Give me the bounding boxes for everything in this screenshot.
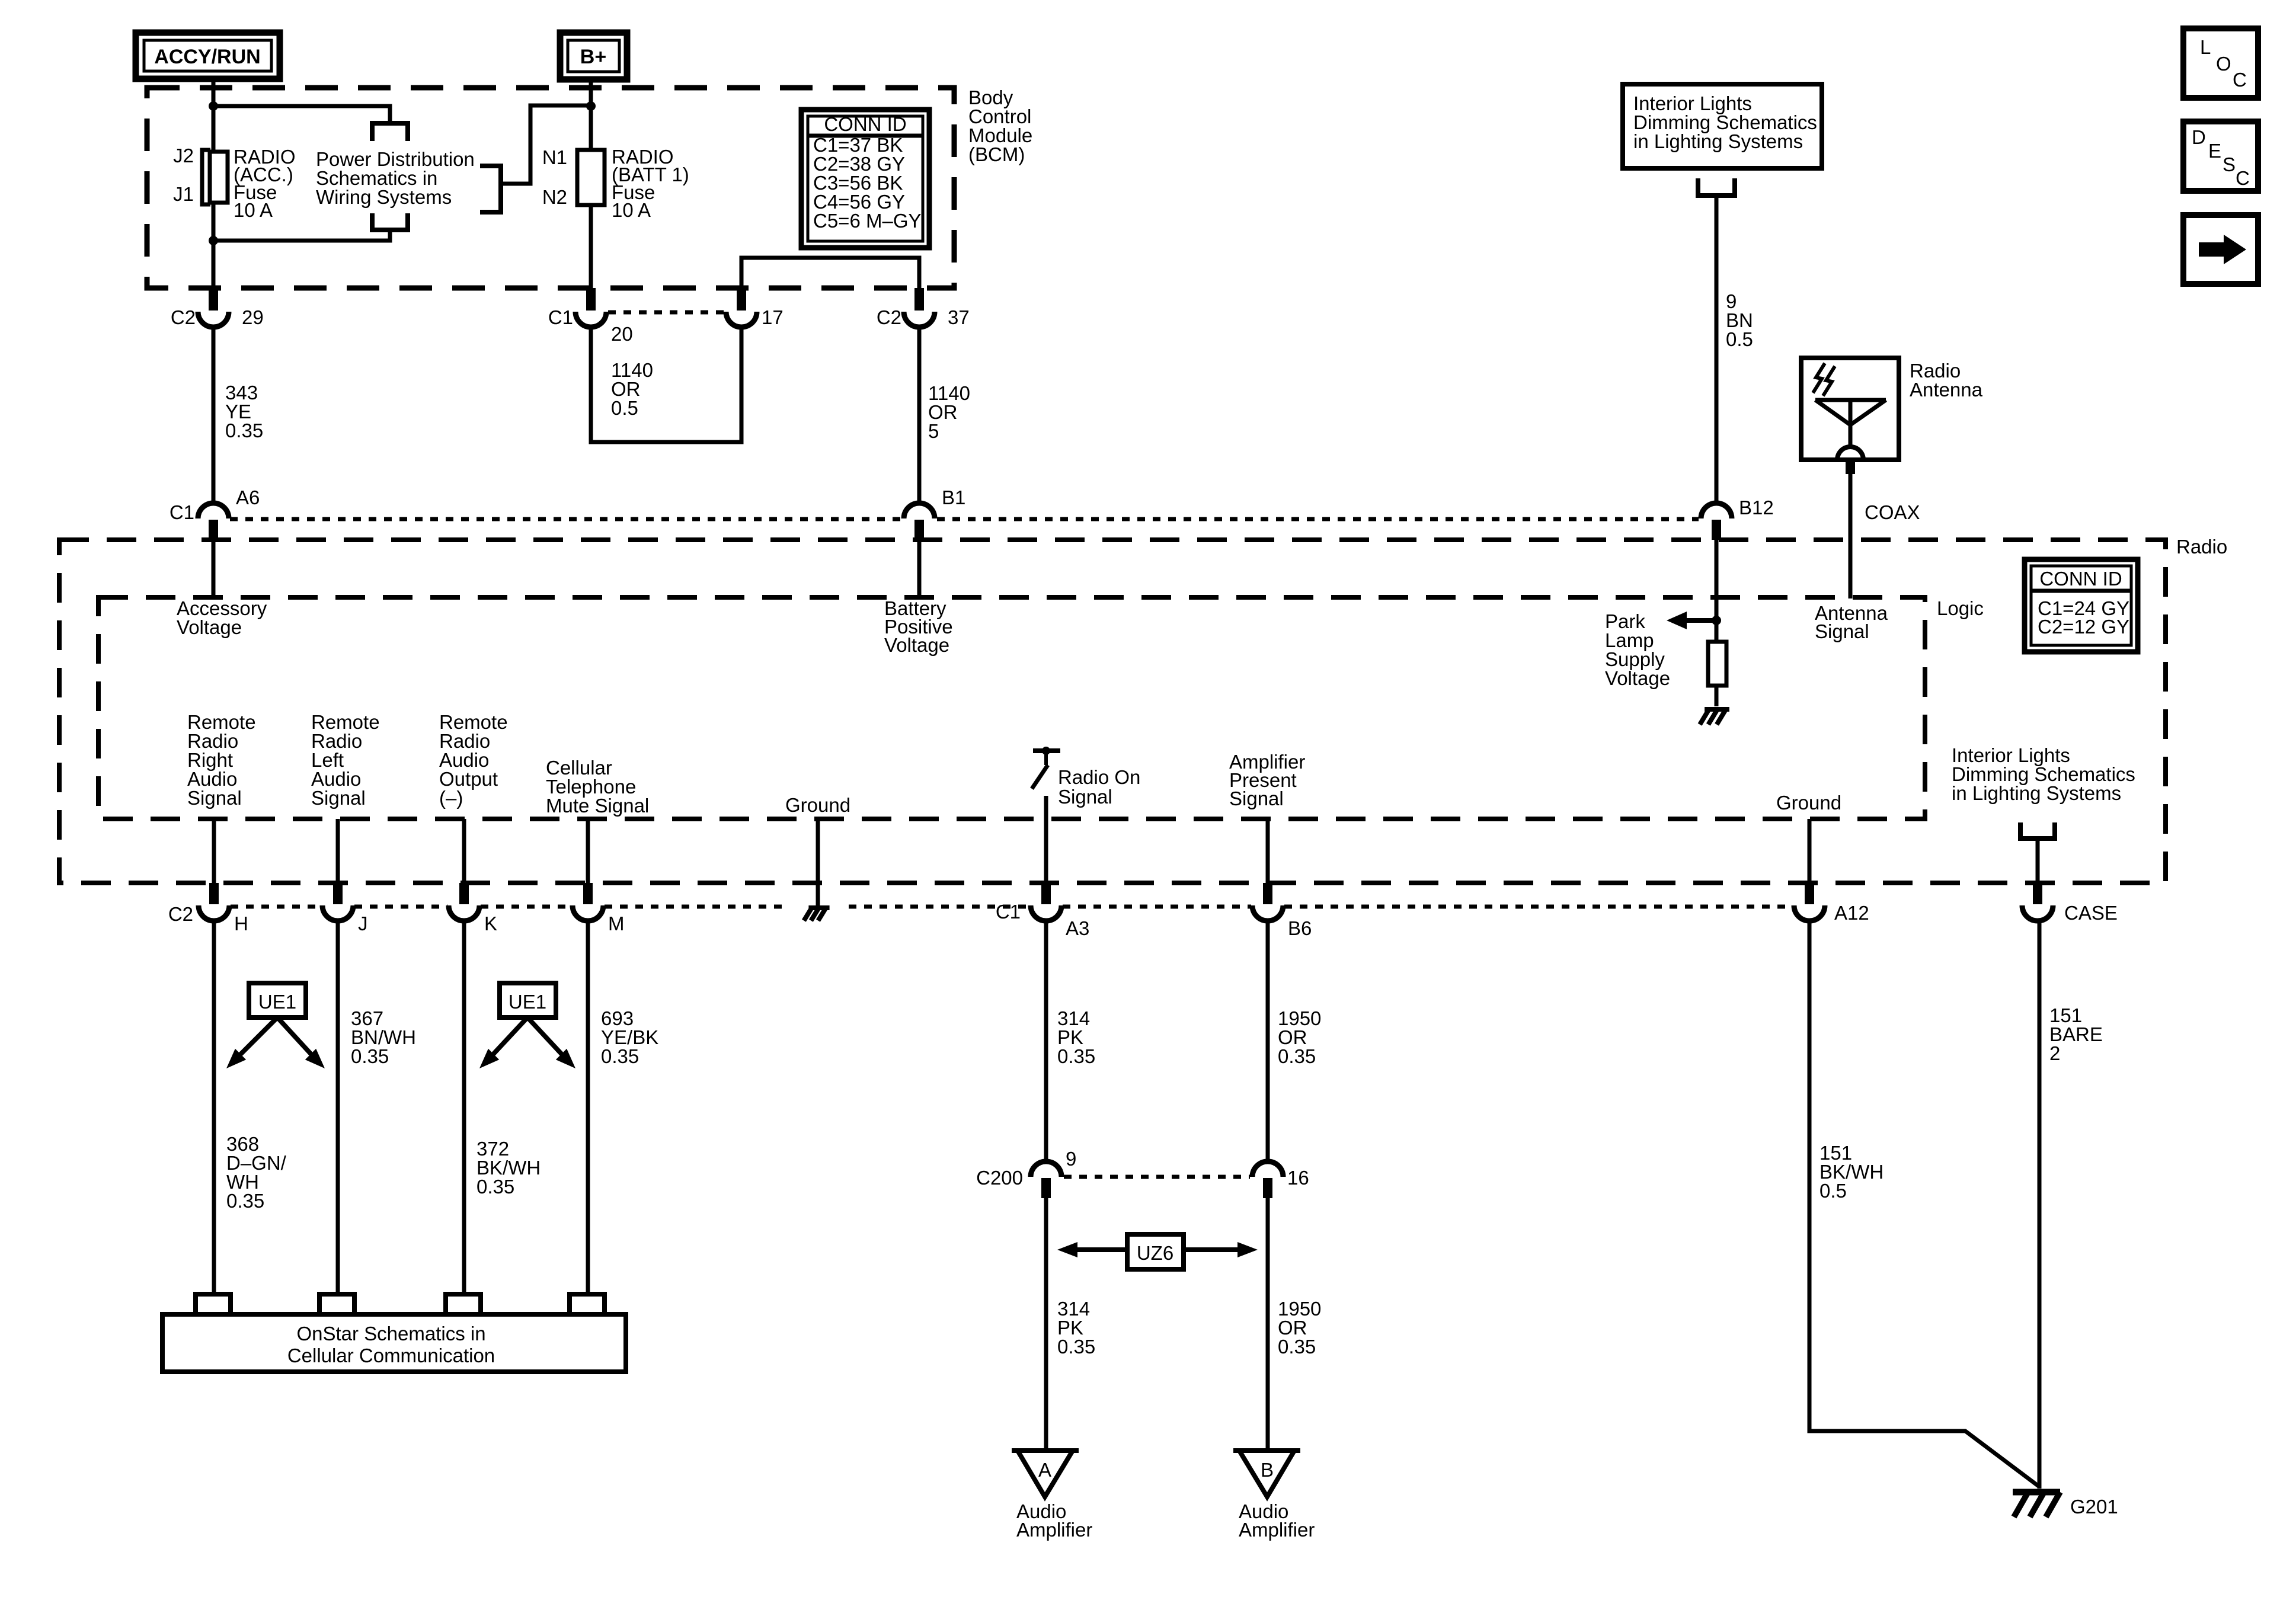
svg-text:UE1: UE1 bbox=[509, 991, 546, 1013]
label C1 (radio top) bbox=[170, 501, 194, 523]
bracket under in Lighting Systems bbox=[2020, 822, 2055, 838]
svg-text:0.5: 0.5 bbox=[1726, 328, 1753, 350]
svg-text:Amplifier: Amplifier bbox=[1016, 1519, 1092, 1541]
svg-text:16: 16 bbox=[1287, 1167, 1309, 1189]
ground wire (radio internal) bbox=[816, 819, 820, 908]
wire remote right audio (logic to connector) bbox=[199, 819, 229, 921]
svg-text:OnStar Schematics in: OnStar Schematics in bbox=[296, 1323, 485, 1345]
svg-text:Signal: Signal bbox=[1815, 620, 1869, 642]
svg-text:Wiring Systems: Wiring Systems bbox=[316, 186, 452, 208]
terminal bracket (OnStar) bbox=[319, 1294, 354, 1314]
pin label N1 bbox=[542, 146, 567, 168]
connector dashed line C1-radio (A6..B12) bbox=[230, 517, 1699, 521]
junction node B+ bbox=[586, 101, 596, 111]
svg-text:5: 5 bbox=[928, 420, 939, 442]
svg-text:Voltage: Voltage bbox=[177, 616, 242, 638]
fuse RADIO (ACC.) 10A bbox=[202, 150, 228, 204]
label Interior Lights Dimming (in radio) bbox=[1952, 744, 2135, 804]
wire to OnStar bbox=[212, 921, 216, 1294]
svg-text:Amplifier: Amplifier bbox=[1239, 1519, 1315, 1541]
svg-text:0.35: 0.35 bbox=[351, 1045, 389, 1067]
svg-text:S: S bbox=[2223, 153, 2236, 175]
svg-text:0.35: 0.35 bbox=[1057, 1045, 1095, 1067]
junction node ACC lower bbox=[209, 236, 218, 245]
wire 9 BN 0.5 (interior lights to B12) bbox=[1715, 196, 1719, 504]
ground G201 bbox=[2013, 1492, 2060, 1517]
label Body Control Module (BCM) bbox=[968, 87, 1032, 165]
svg-text:D: D bbox=[2192, 126, 2206, 148]
label 151 BARE 2 bbox=[2049, 1004, 2103, 1064]
junction node park lamp bbox=[1712, 616, 1721, 625]
label Radio bbox=[2176, 536, 2227, 558]
svg-text:J2: J2 bbox=[173, 145, 194, 167]
svg-text:CONN ID: CONN ID bbox=[824, 113, 906, 135]
svg-text:C2: C2 bbox=[168, 903, 193, 925]
logic dashed outline bbox=[98, 597, 1925, 819]
label C2 (radio bottom) bbox=[168, 903, 193, 925]
wire 1140 OR 0.5 (pin 20 to pin 17) bbox=[591, 327, 741, 442]
label 9 BN 0.5 bbox=[1726, 290, 1753, 350]
label 1950 OR 0.35 (lower) bbox=[1278, 1298, 1321, 1358]
label Accessory Voltage bbox=[177, 597, 267, 638]
label Remote Radio Audio Output (-) bbox=[439, 711, 508, 809]
svg-text:Radio: Radio bbox=[2176, 536, 2227, 558]
svg-text:L: L bbox=[2200, 36, 2211, 58]
wire 151 BARE (CASE to G201) bbox=[2038, 921, 2042, 1489]
pin label A6 bbox=[236, 486, 260, 508]
label C1 (BCM) bbox=[548, 306, 573, 328]
wire 343 YE (pin 29 to radio A6) bbox=[212, 327, 216, 504]
svg-text:Logic: Logic bbox=[1937, 597, 1984, 619]
label C1 (radio bottom) bbox=[996, 901, 1021, 923]
pin label B1 bbox=[942, 486, 965, 508]
wire 1140 OR 5 (pin 37 to radio B1) bbox=[917, 327, 922, 504]
terminal bracket (OnStar) bbox=[446, 1294, 481, 1314]
label Amplifier Present Signal bbox=[1229, 751, 1305, 809]
svg-text:G201: G201 bbox=[2070, 1496, 2118, 1518]
svg-text:17: 17 bbox=[762, 306, 784, 328]
svg-text:C: C bbox=[2236, 167, 2250, 189]
svg-text:0.35: 0.35 bbox=[1278, 1045, 1316, 1067]
svg-text:B6: B6 bbox=[1288, 917, 1312, 939]
svg-text:B: B bbox=[1261, 1459, 1274, 1481]
terminal bracket (OnStar) bbox=[196, 1294, 231, 1314]
svg-text:9: 9 bbox=[1066, 1148, 1076, 1170]
UE1 arrow left bbox=[226, 1017, 277, 1068]
wire remote audio output (logic to connector) bbox=[449, 819, 479, 921]
icon box arrow bbox=[2183, 215, 2258, 284]
radio antenna box bbox=[1801, 358, 1899, 460]
power feed box B+ bbox=[560, 33, 627, 79]
wire battery positive voltage into logic bbox=[917, 540, 922, 597]
label C2 (BCM left) bbox=[171, 306, 196, 328]
label 1140 OR 0.5 bbox=[611, 359, 653, 419]
BCM dashed outline bbox=[147, 88, 954, 288]
label Battery Positive Voltage bbox=[884, 597, 953, 656]
label 343 YE 0.35 bbox=[225, 382, 263, 441]
wire 314 PK upper bbox=[1044, 921, 1048, 1164]
label C2 (BCM right) bbox=[877, 306, 901, 328]
svg-text:C200: C200 bbox=[976, 1167, 1023, 1189]
svg-text:C2: C2 bbox=[171, 306, 196, 328]
wire accessory voltage into logic bbox=[212, 540, 216, 597]
svg-text:Mute Signal: Mute Signal bbox=[546, 795, 649, 817]
svg-text:A12: A12 bbox=[1834, 902, 1869, 924]
svg-text:0.35: 0.35 bbox=[226, 1190, 264, 1212]
svg-text:20: 20 bbox=[611, 323, 633, 345]
svg-text:B+: B+ bbox=[580, 46, 606, 68]
svg-text:Signal: Signal bbox=[1058, 786, 1112, 808]
svg-text:ACCY/RUN: ACCY/RUN bbox=[154, 46, 260, 68]
svg-text:CONN ID: CONN ID bbox=[2039, 568, 2122, 590]
wire junction to reference bracket N-side bbox=[501, 105, 591, 184]
label 1140 OR 5 bbox=[928, 382, 970, 442]
ground (radio internal chassis) bbox=[804, 908, 829, 921]
label 151 BK/WH 0.5 bbox=[1819, 1142, 1884, 1202]
reference bracket bottom (Power Distribution) bbox=[372, 213, 408, 230]
wire remote left audio (logic to connector) bbox=[322, 819, 353, 921]
svg-text:O: O bbox=[2216, 53, 2231, 75]
svg-text:J1: J1 bbox=[173, 183, 194, 205]
label 1950 OR 0.35 (upper) bbox=[1278, 1007, 1321, 1067]
pin label K bbox=[484, 913, 497, 934]
wire cellular mute (logic to connector) bbox=[573, 819, 603, 921]
label Power Distribution Schematics in Wiring Systems bbox=[316, 148, 475, 208]
coax wire antenna to radio bbox=[1846, 460, 1855, 598]
wire B12 into radio (park lamp) bbox=[1715, 540, 1719, 706]
svg-text:Signal: Signal bbox=[1229, 788, 1284, 809]
pin label J2 bbox=[173, 145, 194, 167]
wire 151 BK/WH (A12 to G201) bbox=[1809, 921, 2039, 1487]
svg-text:Voltage: Voltage bbox=[1605, 667, 1670, 689]
radio dashed outline bbox=[59, 540, 2166, 883]
wire case ground (interior lights ref) bbox=[2022, 838, 2053, 921]
wire to OnStar bbox=[336, 921, 340, 1294]
svg-text:Ground: Ground bbox=[1776, 792, 1841, 814]
svg-text:M: M bbox=[608, 913, 625, 934]
pin label 37 bbox=[948, 306, 970, 328]
svg-text:H: H bbox=[234, 913, 248, 934]
svg-text:in Lighting Systems: in Lighting Systems bbox=[1952, 782, 2121, 804]
svg-text:UE1: UE1 bbox=[258, 991, 296, 1013]
label Remote Radio Right Audio Signal bbox=[187, 711, 256, 809]
label 368 D-GN/WH 0.35 bbox=[226, 1133, 287, 1212]
wire B+ junction to fuse bbox=[589, 108, 593, 150]
svg-text:C2: C2 bbox=[877, 306, 901, 328]
svg-text:37: 37 bbox=[948, 306, 970, 328]
label RADIO (ACC.) Fuse 10 A bbox=[234, 146, 296, 221]
junction node ACC bbox=[209, 101, 218, 111]
wire 1950 OR upper bbox=[1266, 921, 1270, 1164]
pin label B12 bbox=[1739, 497, 1774, 518]
label Audio Amplifier (A) bbox=[1016, 1500, 1092, 1541]
power feed box ACCY/RUN bbox=[136, 33, 280, 79]
label 693 YE/BK 0.35 bbox=[601, 1007, 658, 1067]
connector C2 pin 29 (BCM) bbox=[198, 288, 229, 327]
wire BCM internal 17 to 37 bbox=[741, 258, 919, 290]
svg-text:0.35: 0.35 bbox=[477, 1176, 514, 1198]
svg-text:C1: C1 bbox=[170, 501, 194, 523]
svg-text:N1: N1 bbox=[542, 146, 567, 168]
svg-text:C2=12 GY: C2=12 GY bbox=[2038, 616, 2129, 638]
svg-text:(–): (–) bbox=[439, 787, 463, 809]
fuse RADIO (BATT 1) 10A bbox=[577, 150, 605, 205]
svg-text:C: C bbox=[2233, 69, 2247, 91]
label Park Lamp Supply Voltage bbox=[1605, 610, 1670, 689]
ground (radio park lamp) bbox=[1700, 709, 1729, 725]
pin label N2 bbox=[542, 186, 567, 208]
label 372 BK/WH 0.35 bbox=[477, 1138, 541, 1198]
label Antenna Signal bbox=[1815, 602, 1888, 642]
connector C200 pin 9 bbox=[1031, 1161, 1061, 1198]
label Ground (right) bbox=[1776, 792, 1841, 814]
radio on switch symbol bbox=[1032, 747, 1060, 789]
pin label A12 bbox=[1834, 902, 1869, 924]
label 314 PK 0.35 (lower) bbox=[1057, 1298, 1095, 1358]
connector dashed line C2-radio bbox=[231, 905, 1793, 909]
pin label CASE bbox=[2064, 902, 2118, 924]
svg-text:K: K bbox=[484, 913, 497, 934]
svg-text:2: 2 bbox=[2049, 1042, 2060, 1064]
label G201 bbox=[2070, 1496, 2118, 1518]
wire ground A12 (logic to connector) bbox=[1794, 819, 1825, 921]
connector dashed link 20-17 bbox=[608, 311, 724, 315]
svg-text:C5=6 M–GY: C5=6 M–GY bbox=[813, 210, 922, 232]
pin label 20 bbox=[611, 323, 633, 345]
svg-text:0.35: 0.35 bbox=[1278, 1336, 1316, 1358]
wire amplifier present (logic to connector) bbox=[1252, 819, 1283, 921]
UZ6 double arrow bbox=[1057, 1242, 1258, 1257]
reference bracket (to Power Distribution) bbox=[480, 166, 501, 212]
label RADIO (BATT 1) Fuse 10 A bbox=[612, 146, 689, 221]
wire 1950 OR lower bbox=[1266, 1198, 1270, 1451]
UE1 arrow right bbox=[277, 1017, 325, 1068]
connector C200 pin 16 bbox=[1252, 1161, 1283, 1198]
resistor (park lamp dimming) bbox=[1708, 642, 1726, 686]
connector C2 pin 37 (BCM) bbox=[904, 288, 935, 327]
label Audio Amplifier (B) bbox=[1239, 1500, 1315, 1541]
wire 314 PK lower bbox=[1044, 1198, 1048, 1451]
svg-text:0.35: 0.35 bbox=[601, 1045, 639, 1067]
svg-text:B1: B1 bbox=[942, 486, 965, 508]
pin label 29 bbox=[242, 306, 264, 328]
UE1 arrow left 2 bbox=[479, 1017, 527, 1068]
svg-text:0.35: 0.35 bbox=[1057, 1336, 1095, 1358]
pin label B6 bbox=[1288, 917, 1312, 939]
reference bracket top (Power Distribution) bbox=[372, 123, 408, 141]
label Cellular Telephone Mute Signal bbox=[546, 757, 649, 817]
wire to OnStar bbox=[586, 921, 590, 1294]
svg-text:C1: C1 bbox=[548, 306, 573, 328]
reference box UZ6 bbox=[1127, 1234, 1184, 1269]
pin label H bbox=[234, 913, 248, 934]
svg-text:29: 29 bbox=[242, 306, 264, 328]
svg-text:0.5: 0.5 bbox=[611, 397, 638, 419]
wire to Power Distribution reference (top) bbox=[213, 106, 390, 123]
svg-text:A: A bbox=[1038, 1459, 1051, 1481]
label Remote Radio Left Audio Signal bbox=[311, 711, 380, 809]
CONN ID table (radio) bbox=[2025, 559, 2138, 652]
label COAX bbox=[1865, 501, 1920, 523]
terminal bracket (OnStar) bbox=[570, 1294, 605, 1314]
connector C1 pin A6 (radio) bbox=[198, 503, 229, 540]
pin label J1 bbox=[173, 183, 194, 205]
svg-text:Voltage: Voltage bbox=[884, 634, 949, 656]
pin label M bbox=[608, 913, 625, 934]
pin label 9 bbox=[1066, 1148, 1076, 1170]
svg-text:A3: A3 bbox=[1066, 917, 1089, 939]
wire fuse J1 to BCM edge bbox=[212, 203, 216, 290]
wire radio on signal (logic to connector) bbox=[1031, 796, 1061, 921]
label 367 BN/WH 0.35 bbox=[351, 1007, 416, 1067]
wire ACCY/RUN to junction bbox=[212, 79, 216, 108]
pin label J bbox=[358, 913, 368, 934]
svg-text:10 A: 10 A bbox=[612, 199, 651, 221]
icon box LOC bbox=[2183, 28, 2258, 98]
svg-text:CASE: CASE bbox=[2064, 902, 2118, 924]
label 314 PK 0.35 (upper) bbox=[1057, 1007, 1095, 1067]
wire Power Distribution reference (bottom) to junction bbox=[213, 230, 390, 241]
svg-text:10 A: 10 A bbox=[234, 199, 273, 221]
svg-text:C1: C1 bbox=[996, 901, 1021, 923]
reference box Interior Lights Dimming (top) bbox=[1623, 84, 1822, 168]
svg-text:in Lighting Systems: in Lighting Systems bbox=[1633, 130, 1803, 152]
svg-text:A6: A6 bbox=[236, 486, 260, 508]
CONN ID table (BCM) bbox=[801, 110, 929, 248]
svg-text:Ground: Ground bbox=[785, 794, 850, 816]
svg-text:0.35: 0.35 bbox=[225, 420, 263, 441]
svg-text:Signal: Signal bbox=[311, 787, 366, 809]
svg-text:Antenna: Antenna bbox=[1910, 379, 1983, 401]
svg-text:UZ6: UZ6 bbox=[1137, 1242, 1173, 1264]
label C200 bbox=[976, 1167, 1023, 1189]
svg-text:(BCM): (BCM) bbox=[968, 143, 1025, 165]
svg-text:COAX: COAX bbox=[1865, 501, 1920, 523]
OnStar reference box bbox=[162, 1314, 626, 1372]
connector pin B1 (radio) bbox=[904, 503, 935, 540]
reference box UE1 (left) bbox=[249, 983, 306, 1017]
pin label 16 bbox=[1287, 1167, 1309, 1189]
wire fuse N2 to BCM edge bbox=[589, 205, 593, 290]
UE1 arrow right 2 bbox=[527, 1017, 575, 1068]
reference box UE1 (right) bbox=[500, 983, 556, 1017]
connector dashed link C200 bbox=[1064, 1175, 1250, 1179]
label Radio On Signal bbox=[1058, 766, 1140, 808]
park lamp arrow bbox=[1667, 612, 1716, 629]
pin label A3 bbox=[1066, 917, 1089, 939]
wire junction to fuse J2 bbox=[212, 106, 216, 152]
svg-text:E: E bbox=[2208, 140, 2221, 162]
audio amplifier triangle B bbox=[1233, 1451, 1300, 1497]
icon box DESC bbox=[2183, 121, 2258, 191]
label Logic bbox=[1937, 597, 1984, 619]
svg-text:N2: N2 bbox=[542, 186, 567, 208]
svg-text:J: J bbox=[358, 913, 368, 934]
svg-text:0.5: 0.5 bbox=[1819, 1180, 1847, 1202]
label Radio Antenna bbox=[1910, 360, 1983, 401]
pin label 17 bbox=[762, 306, 784, 328]
svg-text:Radio On: Radio On bbox=[1058, 766, 1140, 788]
connector C1 pin 17 (BCM) bbox=[726, 288, 757, 327]
antenna wave marks bbox=[1813, 363, 1835, 396]
connector pin B12 (radio) bbox=[1701, 503, 1732, 540]
wire to OnStar bbox=[462, 921, 466, 1294]
connector C1 pin 20 (BCM) bbox=[575, 288, 606, 327]
svg-text:Cellular Communication: Cellular Communication bbox=[287, 1345, 495, 1366]
audio amplifier triangle A bbox=[1012, 1451, 1079, 1497]
svg-text:Signal: Signal bbox=[187, 787, 242, 809]
wire B+ to junction bbox=[589, 79, 593, 108]
svg-text:B12: B12 bbox=[1739, 497, 1774, 518]
reference bracket below Interior Lights box bbox=[1698, 178, 1735, 196]
label Ground (left) bbox=[785, 794, 850, 816]
